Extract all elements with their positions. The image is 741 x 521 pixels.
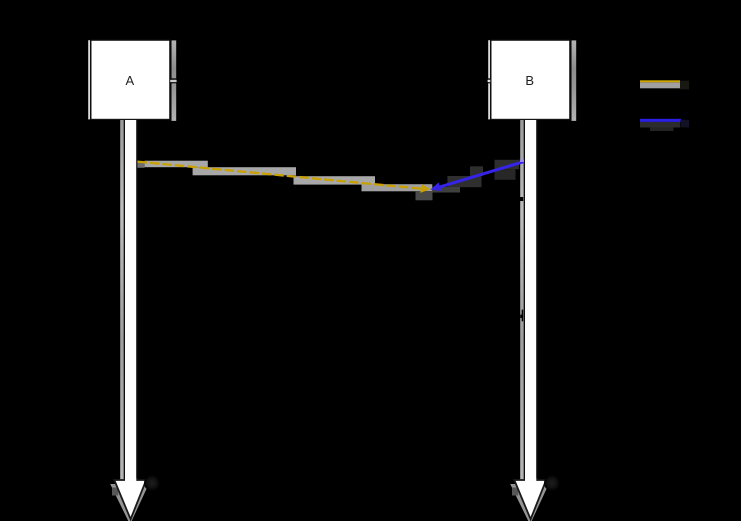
legend sample 1 yellow line (640, 80, 680, 82)
violet halo where blue meets stripe (520, 159, 524, 162)
wire yellow message shadow band S2 (193, 167, 296, 175)
blue arrowhead (430, 182, 441, 191)
lifeline A shaft shadow stripe (120, 120, 124, 484)
node A box (91, 40, 170, 119)
svg-text:B: B (525, 73, 534, 88)
lifeline B shaft shadow stripe (520, 120, 524, 484)
faint shadow blob near A arrowhead (144, 475, 160, 491)
wire yellow message shadow band S4 (362, 184, 433, 191)
legend sample 1 shadow band (640, 82, 680, 88)
node B box right gray bar (572, 40, 577, 121)
lifeline B white shaft (524, 120, 525, 482)
wire yellow message shadow band S0 (137, 163, 144, 168)
lifeline A head shadow (110, 484, 149, 521)
hidden black text mark on B stripe at y198 (520, 197, 524, 201)
hidden black H mark on B stripe at y310 (522, 310, 524, 322)
faint legend end blobs (680, 81, 689, 90)
legend sample 2 blue line (640, 119, 681, 122)
wire yellow message shadow band S1 (145, 161, 208, 168)
hidden equals mark over B left line (488, 80, 491, 83)
node A box left gray line (88, 40, 90, 119)
faint shadow blob near B arrowhead (544, 475, 560, 491)
node A box right gray bar (172, 40, 177, 121)
lifeline B head shadow (510, 484, 549, 521)
lifeline A arrowhead (114, 480, 146, 519)
svg-text:A: A (125, 73, 134, 88)
wire yellow dashed message A to point (137, 162, 421, 189)
hidden equals mark over A bar (170, 80, 176, 83)
lifeline B arrowhead (514, 480, 546, 519)
node B box (491, 40, 570, 119)
node B box left gray line (488, 40, 490, 119)
wire blue message B to point (439, 162, 524, 188)
wire yellow message shadow band S3 (294, 176, 376, 184)
yellow arrowhead (420, 184, 430, 193)
legend sample 2 shadow band (640, 122, 680, 128)
lifeline A white shaft (124, 120, 125, 482)
wire blue message shadow blocks (447, 176, 481, 187)
